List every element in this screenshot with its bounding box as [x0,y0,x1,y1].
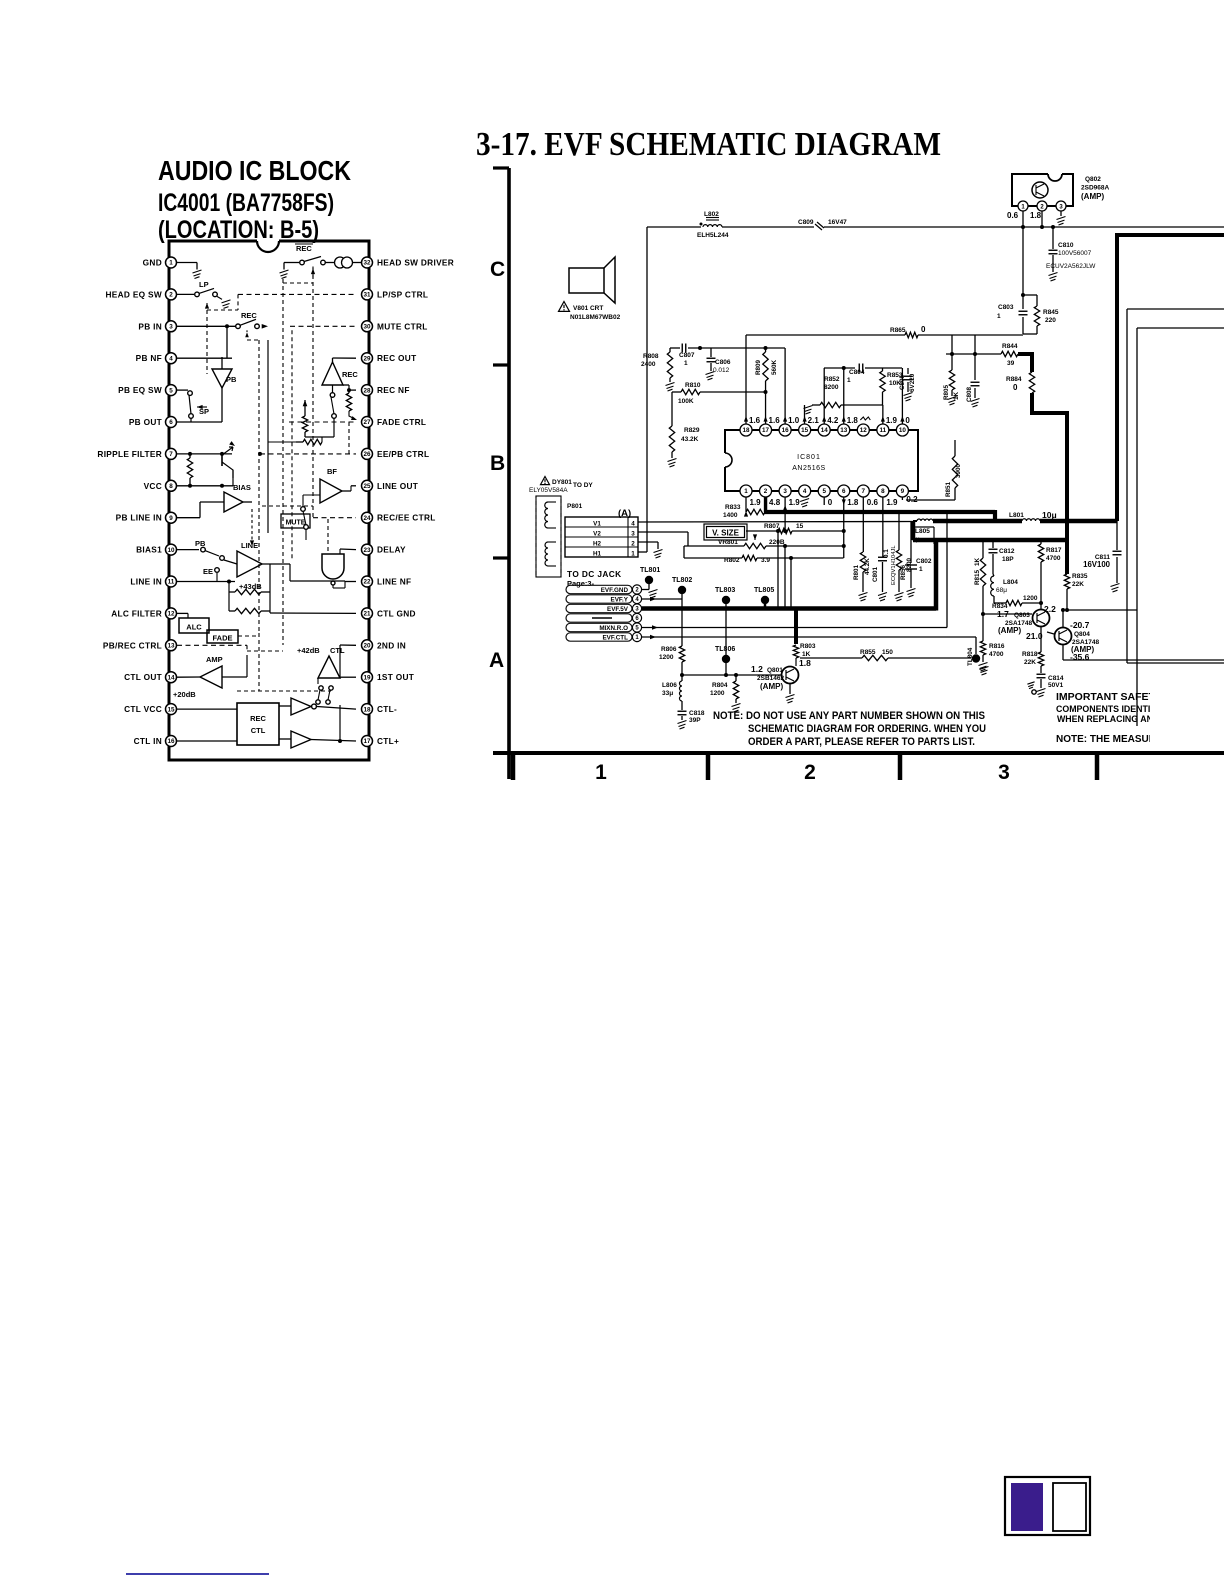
svg-text:TO DY: TO DY [573,482,593,489]
svg-text:20: 20 [363,643,371,650]
svg-text:1.9: 1.9 [789,498,801,507]
svg-text:EVF.5V: EVF.5V [607,606,629,613]
svg-text:150: 150 [882,649,893,656]
svg-text:1.9: 1.9 [886,498,898,507]
svg-text:HEAD EQ SW: HEAD EQ SW [106,289,162,299]
svg-text:IC4001 (BA7758FS): IC4001 (BA7758FS) [158,189,334,217]
svg-text:18P: 18P [1002,556,1014,563]
svg-text:R805: R805 [943,384,950,400]
svg-text:LINE OUT: LINE OUT [377,481,418,491]
svg-text:1: 1 [997,313,1001,320]
svg-text:1.8: 1.8 [799,658,811,668]
svg-text:0.6: 0.6 [867,498,879,507]
svg-text:0.6: 0.6 [1007,211,1019,220]
svg-text:16: 16 [167,738,175,745]
svg-text:TO DC JACK: TO DC JACK [567,569,622,579]
svg-text:1200: 1200 [710,690,725,697]
svg-text:0: 0 [828,498,833,507]
svg-text:8: 8 [169,483,173,490]
svg-text:AMP: AMP [206,655,223,664]
svg-text:3: 3 [783,488,787,495]
svg-text:7: 7 [169,451,173,458]
svg-text:12: 12 [167,611,175,618]
svg-text:2: 2 [764,488,768,495]
svg-text:R833: R833 [725,504,741,511]
svg-text:15: 15 [801,427,809,434]
svg-text:1: 1 [631,551,635,558]
svg-text:VCC: VCC [144,481,162,491]
svg-text:AN2516S: AN2516S [792,465,825,472]
svg-text:1200: 1200 [659,654,674,661]
svg-text:22K: 22K [1024,659,1036,666]
svg-text:FADE: FADE [212,634,232,643]
svg-text:TL801: TL801 [640,567,660,574]
svg-text:R810: R810 [685,382,701,389]
svg-text:ALC: ALC [186,623,202,632]
svg-text:24: 24 [363,515,371,522]
svg-text:R865: R865 [890,327,906,334]
svg-text:7: 7 [862,488,866,495]
svg-text:6: 6 [842,488,846,495]
svg-text:44.2K: 44.2K [864,558,871,575]
svg-text:3: 3 [998,761,1010,784]
svg-text:TL806: TL806 [715,646,735,653]
svg-text:68μ: 68μ [996,587,1007,594]
svg-text:TL802: TL802 [672,577,692,584]
svg-text:MUTE CTRL: MUTE CTRL [377,321,428,331]
svg-text:+42dB: +42dB [297,646,320,655]
svg-text:1: 1 [684,360,688,367]
svg-text:(AMP): (AMP) [998,626,1021,635]
svg-text:1: 1 [595,761,607,784]
svg-text:PB LINE IN: PB LINE IN [116,513,162,523]
svg-text:R803: R803 [800,643,816,650]
svg-text:1: 1 [919,566,923,573]
svg-text:R806: R806 [661,646,677,653]
svg-text:C818: C818 [689,710,705,717]
svg-text:0: 0 [1013,383,1018,392]
svg-text:(AMP): (AMP) [1081,192,1104,201]
svg-text:IC801: IC801 [797,454,821,461]
svg-text:4: 4 [631,521,635,528]
svg-text:26: 26 [363,451,371,458]
svg-text:0.1: 0.1 [883,549,890,558]
svg-text:REC NF: REC NF [377,385,410,395]
svg-text:V1: V1 [593,521,601,528]
svg-text:PB IN: PB IN [138,321,162,331]
svg-text:1400: 1400 [723,512,738,519]
svg-text:P801: P801 [567,503,583,510]
svg-text:N01L8M67WB02: N01L8M67WB02 [570,314,621,321]
svg-text:C802: C802 [916,558,932,565]
svg-text:3.9: 3.9 [761,557,770,564]
svg-text:ELH5L244: ELH5L244 [697,232,729,239]
svg-text:C804: C804 [849,369,865,376]
svg-text:C810: C810 [1058,242,1074,249]
svg-text:CTL IN: CTL IN [134,736,162,746]
svg-text:A: A [489,649,504,672]
svg-text:100V56007: 100V56007 [1058,250,1092,257]
svg-text:3-17. EVF SCHEMATIC DIAGRAM: 3-17. EVF SCHEMATIC DIAGRAM [476,126,941,163]
svg-text:CTL VCC: CTL VCC [124,704,162,714]
svg-text:FADE CTRL: FADE CTRL [377,417,426,427]
svg-text:1200: 1200 [1023,595,1038,602]
svg-text:0.012: 0.012 [713,367,730,374]
svg-text:R804: R804 [712,682,728,689]
svg-text:PB NF: PB NF [136,353,162,363]
svg-text:R845: R845 [1043,309,1059,316]
svg-text:50V1: 50V1 [1048,682,1064,689]
svg-text:ALC FILTER: ALC FILTER [111,608,162,618]
svg-text:220B: 220B [769,539,785,546]
svg-text:PB/REC CTRL: PB/REC CTRL [103,640,162,650]
svg-text:RIPPLE FILTER: RIPPLE FILTER [97,449,162,459]
svg-text:R852: R852 [824,376,840,383]
svg-text:EVF.CTL: EVF.CTL [602,634,628,641]
svg-text:C801: C801 [872,566,879,582]
svg-text:10: 10 [167,547,175,554]
svg-text:11: 11 [880,427,887,434]
svg-text:R855: R855 [860,649,876,656]
svg-text:18: 18 [363,706,371,713]
svg-text:6V220: 6V220 [909,373,916,392]
svg-text:6: 6 [169,419,173,426]
svg-text:TL805: TL805 [754,587,774,594]
svg-text:10: 10 [899,427,907,434]
svg-text:C809: C809 [798,219,814,226]
svg-text:22: 22 [363,579,371,586]
svg-text:+43dB: +43dB [239,582,262,591]
svg-text:19: 19 [363,674,371,681]
svg-text:9: 9 [901,488,905,495]
svg-text:BF: BF [327,467,337,476]
svg-text:BIAS1: BIAS1 [136,545,162,555]
svg-text:REC: REC [342,370,358,379]
svg-text:32: 32 [363,260,371,267]
svg-text:LP: LP [199,280,209,289]
svg-text:R844: R844 [1002,343,1018,350]
svg-text:1.8: 1.8 [1030,211,1042,220]
svg-text:VR801: VR801 [718,539,738,546]
svg-text:(AMP): (AMP) [760,682,783,691]
svg-text:2SB1462: 2SB1462 [757,675,784,682]
svg-text:V2: V2 [593,531,601,538]
svg-text:1.0: 1.0 [788,416,800,425]
svg-text:CTL+: CTL+ [377,736,399,746]
svg-text:H2: H2 [593,541,602,548]
svg-text:11: 11 [168,579,175,586]
svg-text:1.6: 1.6 [769,416,781,425]
svg-text:2.1: 2.1 [808,416,820,425]
svg-text:0: 0 [921,325,926,334]
svg-text:1.9: 1.9 [886,416,898,425]
svg-text:R801: R801 [853,564,860,580]
svg-text:V801 CRT: V801 CRT [573,305,603,312]
svg-text:REC: REC [250,714,266,723]
svg-text:25: 25 [363,483,371,490]
svg-text:EE/PB CTRL: EE/PB CTRL [377,449,429,459]
svg-text:LINE NF: LINE NF [377,577,411,587]
svg-text:15: 15 [167,706,175,713]
svg-text:43.2K: 43.2K [681,436,699,443]
svg-text:2: 2 [169,292,173,299]
svg-text:1.8: 1.8 [847,498,859,507]
svg-text:R818: R818 [1022,651,1038,658]
svg-text:PB: PB [226,375,237,384]
svg-text:R884: R884 [1006,376,1022,383]
svg-text:27: 27 [363,419,371,426]
svg-text:1: 1 [169,260,173,267]
svg-text:Q802: Q802 [1085,176,1101,183]
svg-text:1K: 1K [953,391,960,400]
svg-text:SCHEMATIC DIAGRAM FOR ORDERING: SCHEMATIC DIAGRAM FOR ORDERING. WHEN YOU [748,723,986,735]
svg-text:REC: REC [296,244,312,253]
svg-text:8: 8 [881,488,885,495]
svg-text:2400: 2400 [641,361,656,368]
svg-text:PB: PB [195,539,206,548]
svg-text:C814: C814 [1048,675,1064,682]
svg-text:Q801: Q801 [767,667,783,674]
svg-text:REC: REC [241,311,257,320]
svg-text:B: B [490,452,505,475]
svg-text:REC OUT: REC OUT [377,353,416,363]
svg-text:1.2: 1.2 [751,664,763,674]
svg-text:8200: 8200 [824,384,839,391]
svg-text:4.2: 4.2 [827,416,839,425]
svg-text:4700: 4700 [989,651,1004,658]
svg-text:C807: C807 [679,352,695,359]
svg-text:REC/EE CTRL: REC/EE CTRL [377,513,436,523]
svg-text:-20.7: -20.7 [1070,620,1090,630]
svg-text:L801: L801 [1009,512,1024,519]
svg-text:4: 4 [169,355,173,362]
svg-text:100K: 100K [678,398,694,405]
svg-text:L806: L806 [662,682,677,689]
svg-text:3900: 3900 [955,463,962,478]
svg-text:33μ: 33μ [662,690,673,697]
svg-text:3: 3 [169,324,173,331]
svg-text:28: 28 [363,387,371,394]
svg-text:EVF.GND: EVF.GND [601,587,629,594]
svg-text:ELY05V584A: ELY05V584A [529,487,568,494]
svg-text:39: 39 [1007,360,1015,367]
svg-text:TL804: TL804 [967,647,974,666]
svg-text:12: 12 [860,427,868,434]
svg-text:22K: 22K [1072,581,1084,588]
svg-text:13: 13 [840,427,848,434]
svg-text:1K: 1K [802,651,811,658]
svg-text:R817: R817 [1046,547,1062,554]
svg-text:Page:3-: Page:3- [567,579,595,588]
svg-text:R815: R815 [974,569,981,585]
svg-text:1: 1 [847,377,851,384]
svg-text:1ST OUT: 1ST OUT [377,672,414,682]
svg-text:H1: H1 [593,551,602,558]
svg-text:R816: R816 [989,643,1005,650]
svg-text:C803: C803 [998,304,1014,311]
svg-text:4.8: 4.8 [769,498,781,507]
svg-text:NOTE: DO NOT USE ANY PART NUMB: NOTE: DO NOT USE ANY PART NUMBER SHOWN O… [713,710,985,722]
svg-text:2.2: 2.2 [1044,604,1056,614]
svg-text:10μ: 10μ [1042,510,1057,520]
svg-text:L805: L805 [915,528,930,535]
svg-text:CTL GND: CTL GND [377,608,416,618]
svg-text:0: 0 [905,416,910,425]
svg-text:1.9: 1.9 [750,498,762,507]
svg-text:R851: R851 [945,481,952,497]
svg-text:C806: C806 [715,359,731,366]
svg-text:CTL OUT: CTL OUT [124,672,162,682]
svg-text:220: 220 [1045,317,1056,324]
svg-text:SP: SP [199,407,209,416]
svg-text:14: 14 [821,427,829,434]
svg-text:L804: L804 [1003,579,1018,586]
svg-text:PB OUT: PB OUT [129,417,162,427]
svg-text:13: 13 [167,643,175,650]
svg-text:16: 16 [782,427,790,434]
svg-text:39P: 39P [689,717,701,724]
svg-text:18: 18 [742,427,750,434]
svg-text:R835: R835 [1072,573,1088,580]
svg-text:EE: EE [203,567,213,576]
svg-text:0.2: 0.2 [906,495,918,504]
svg-text:R802: R802 [724,557,740,564]
svg-text:14: 14 [167,674,175,681]
svg-text:17: 17 [762,427,770,434]
svg-text:1: 1 [744,488,748,495]
svg-text:ECUV2A562JLW: ECUV2A562JLW [1046,263,1096,270]
svg-text:21.0: 21.0 [1026,631,1043,641]
svg-text:BIAS: BIAS [233,483,251,492]
svg-text:Q803: Q803 [1014,612,1030,619]
svg-text:4: 4 [803,488,807,495]
svg-text:3: 3 [631,531,635,538]
svg-text:LINE IN: LINE IN [130,577,162,587]
svg-text:15: 15 [796,523,804,530]
svg-text:2SD968A: 2SD968A [1081,185,1109,192]
svg-text:R807: R807 [764,523,780,530]
svg-text:1K: 1K [974,557,981,566]
svg-text:1.8: 1.8 [847,416,859,425]
svg-text:C808: C808 [966,386,973,402]
svg-text:R809: R809 [755,359,762,375]
svg-text:TL803: TL803 [715,587,735,594]
svg-text:R808: R808 [643,353,659,360]
svg-text:2: 2 [631,541,635,548]
svg-text:23: 23 [363,547,371,554]
svg-text:L802: L802 [704,211,719,218]
svg-text:DELAY: DELAY [377,545,406,555]
svg-text:1.6: 1.6 [749,416,761,425]
svg-text:GND: GND [143,258,162,268]
svg-text:560K: 560K [771,359,778,375]
svg-text:LINE: LINE [241,541,258,550]
svg-text:4700: 4700 [1046,555,1061,562]
svg-text:HEAD SW DRIVER: HEAD SW DRIVER [377,258,454,268]
svg-text:MUTE: MUTE [286,520,306,527]
svg-text:PB EQ SW: PB EQ SW [118,385,162,395]
svg-text:2ND IN: 2ND IN [377,640,406,650]
svg-text:LP/SP CTRL: LP/SP CTRL [377,289,428,299]
svg-text:ORDER A PART, PLEASE REFER TO: ORDER A PART, PLEASE REFER TO PARTS LIST… [748,736,975,748]
svg-text:17: 17 [363,738,371,745]
svg-text:5: 5 [169,387,173,394]
svg-text:29: 29 [363,355,371,362]
svg-text:CTL-: CTL- [377,704,397,714]
svg-text:+20dB: +20dB [173,690,196,699]
svg-text:1.7: 1.7 [997,609,1009,619]
svg-text:CTL: CTL [251,726,266,735]
svg-text:DY801: DY801 [552,479,572,486]
svg-text:5: 5 [822,488,826,495]
svg-text:R829: R829 [684,427,700,434]
svg-text:CTL: CTL [330,646,345,655]
svg-text:2: 2 [804,761,816,784]
svg-text:30: 30 [363,324,371,331]
svg-text:C: C [490,258,505,281]
svg-text:16V100: 16V100 [1083,560,1111,569]
svg-text:Q804: Q804 [1074,631,1090,638]
svg-text:MIXN.R.O: MIXN.R.O [599,625,628,632]
svg-text:21: 21 [363,611,371,618]
svg-text:V. SIZE: V. SIZE [712,529,739,538]
svg-text:EVF.Y: EVF.Y [611,596,629,603]
svg-text:AUDIO IC BLOCK: AUDIO IC BLOCK [158,155,351,186]
svg-text:9: 9 [169,515,173,522]
svg-text:31: 31 [363,292,371,299]
svg-text:16V47: 16V47 [828,219,847,226]
svg-text:C812: C812 [999,548,1015,555]
